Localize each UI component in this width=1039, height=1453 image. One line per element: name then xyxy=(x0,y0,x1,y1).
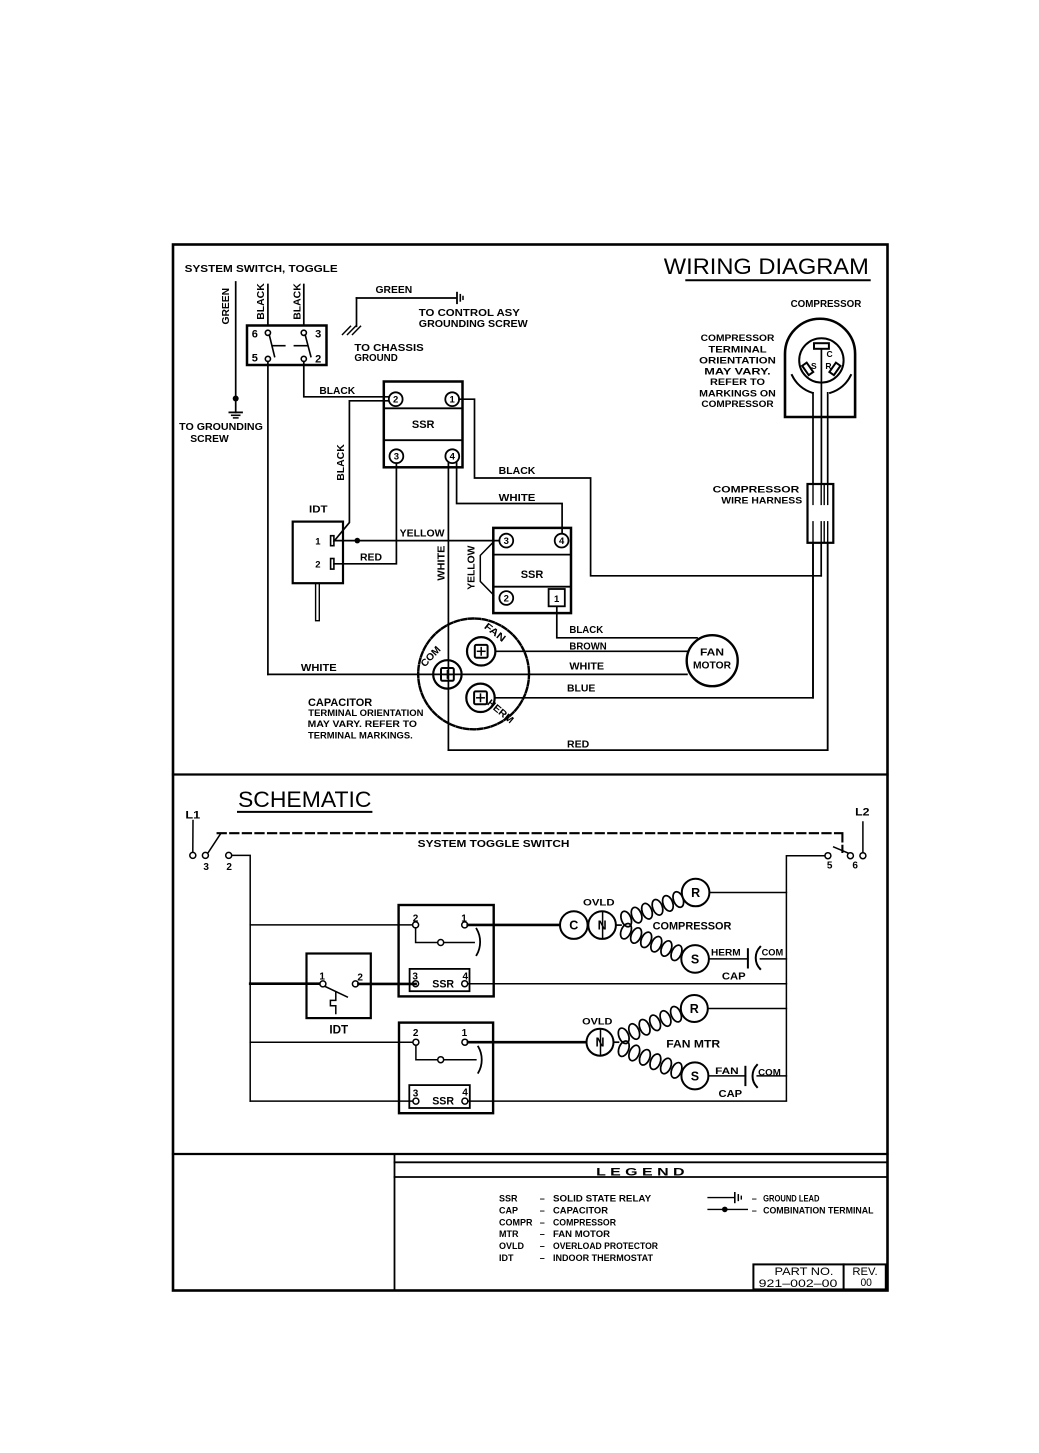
svg-text:6: 6 xyxy=(252,328,258,340)
svg-text:YELLOW: YELLOW xyxy=(400,529,445,540)
svg-text:S: S xyxy=(811,361,817,371)
svg-text:2: 2 xyxy=(357,972,363,983)
svg-text:TERMINAL ORIENTATION: TERMINAL ORIENTATION xyxy=(308,708,423,718)
svg-text:R: R xyxy=(690,1002,699,1016)
svg-text:SYSTEM SWITCH, TOGGLE: SYSTEM SWITCH, TOGGLE xyxy=(185,264,338,275)
svg-text:IDT: IDT xyxy=(329,1025,348,1037)
svg-text:COMPRESSOR: COMPRESSOR xyxy=(701,399,774,409)
svg-text:SSR: SSR xyxy=(521,569,544,581)
svg-text:1: 1 xyxy=(450,395,456,406)
svg-text:921–002–00: 921–002–00 xyxy=(759,1278,838,1290)
svg-text:CAP: CAP xyxy=(722,971,746,982)
svg-text:–: – xyxy=(540,1217,545,1227)
svg-text:COMPRESSOR: COMPRESSOR xyxy=(701,333,775,343)
svg-text:BLACK: BLACK xyxy=(319,386,355,397)
svg-text:WHITE: WHITE xyxy=(437,545,448,580)
svg-text:N: N xyxy=(598,919,607,933)
svg-text:L2: L2 xyxy=(855,807,869,819)
svg-text:GROUNDING SCREW: GROUNDING SCREW xyxy=(419,319,528,330)
svg-text:FAN: FAN xyxy=(715,1066,739,1076)
svg-text:COMBINATION TERMINAL: COMBINATION TERMINAL xyxy=(763,1205,874,1215)
svg-text:–: – xyxy=(540,1253,545,1263)
svg-text:BLACK: BLACK xyxy=(499,466,537,477)
svg-text:1: 1 xyxy=(319,971,325,982)
svg-text:1: 1 xyxy=(315,537,321,548)
svg-text:MTR: MTR xyxy=(499,1229,519,1239)
svg-text:BROWN: BROWN xyxy=(569,641,606,652)
svg-text:OVERLOAD PROTECTOR: OVERLOAD PROTECTOR xyxy=(553,1241,658,1251)
svg-text:SCHEMATIC: SCHEMATIC xyxy=(238,787,372,812)
svg-text:BLACK: BLACK xyxy=(256,282,267,319)
svg-text:BLUE: BLUE xyxy=(567,684,596,695)
svg-text:R: R xyxy=(691,886,700,900)
svg-text:2: 2 xyxy=(393,395,398,406)
svg-text:RED: RED xyxy=(360,552,382,563)
svg-text:WHITE: WHITE xyxy=(499,493,536,504)
svg-text:IDT: IDT xyxy=(309,505,328,516)
svg-text:1: 1 xyxy=(462,1028,468,1039)
svg-text:4: 4 xyxy=(450,452,456,463)
svg-text:WIRING DIAGRAM: WIRING DIAGRAM xyxy=(664,254,869,279)
svg-text:S: S xyxy=(691,1069,699,1083)
svg-text:FAN MOTOR: FAN MOTOR xyxy=(553,1229,611,1239)
svg-text:4: 4 xyxy=(559,536,565,547)
svg-text:HERM: HERM xyxy=(711,948,741,958)
svg-text:OVLD: OVLD xyxy=(499,1241,525,1251)
svg-text:CAP: CAP xyxy=(719,1089,743,1100)
svg-text:PART NO.: PART NO. xyxy=(775,1266,834,1278)
svg-text:N: N xyxy=(595,1036,604,1050)
svg-text:SSR: SSR xyxy=(499,1194,518,1204)
svg-text:CAPACITOR: CAPACITOR xyxy=(553,1205,609,1215)
svg-text:2: 2 xyxy=(315,354,321,366)
svg-text:L E G E N D: L E G E N D xyxy=(596,1167,684,1179)
svg-text:COMPR: COMPR xyxy=(499,1217,533,1227)
svg-text:GROUND: GROUND xyxy=(354,353,397,364)
svg-text:2: 2 xyxy=(413,1028,419,1039)
svg-text:3: 3 xyxy=(315,328,321,340)
svg-text:YELLOW: YELLOW xyxy=(467,545,478,590)
svg-text:–: – xyxy=(540,1194,545,1204)
svg-text:1: 1 xyxy=(554,594,560,605)
svg-text:FAN MTR: FAN MTR xyxy=(666,1039,720,1051)
svg-text:2: 2 xyxy=(504,593,509,604)
svg-text:2: 2 xyxy=(315,560,320,571)
svg-text:2: 2 xyxy=(226,862,232,873)
svg-text:MOTOR: MOTOR xyxy=(693,660,732,671)
svg-text:COM: COM xyxy=(762,948,784,958)
svg-text:COMPRESSOR: COMPRESSOR xyxy=(653,921,732,933)
svg-text:SYSTEM TOGGLE SWITCH: SYSTEM TOGGLE SWITCH xyxy=(418,839,570,850)
svg-text:TO GROUNDING: TO GROUNDING xyxy=(179,422,263,433)
svg-text:–: – xyxy=(752,1205,757,1215)
svg-text:REFER TO: REFER TO xyxy=(710,377,765,387)
svg-text:BLACK: BLACK xyxy=(293,282,304,319)
svg-text:WHITE: WHITE xyxy=(301,663,337,674)
svg-text:L1: L1 xyxy=(185,809,200,821)
svg-text:GREEN: GREEN xyxy=(221,288,232,325)
svg-text:4: 4 xyxy=(462,1088,468,1099)
svg-text:GROUND LEAD: GROUND LEAD xyxy=(763,1194,820,1204)
svg-text:5: 5 xyxy=(827,861,833,872)
svg-text:BLACK: BLACK xyxy=(569,625,604,636)
svg-text:S: S xyxy=(691,952,699,966)
svg-text:2: 2 xyxy=(413,913,419,924)
svg-text:OVLD: OVLD xyxy=(583,898,615,909)
svg-text:3: 3 xyxy=(394,452,399,463)
svg-text:–: – xyxy=(540,1229,545,1239)
svg-text:COMPRESSOR: COMPRESSOR xyxy=(553,1217,616,1227)
svg-text:BLACK: BLACK xyxy=(336,443,347,480)
svg-text:IDT: IDT xyxy=(499,1253,514,1263)
svg-text:TERMINAL MARKINGS.: TERMINAL MARKINGS. xyxy=(308,730,413,740)
svg-text:3: 3 xyxy=(203,862,209,873)
svg-text:INDOOR THERMOSTAT: INDOOR THERMOSTAT xyxy=(553,1253,653,1263)
svg-text:C: C xyxy=(569,919,578,933)
svg-text:SCREW: SCREW xyxy=(190,434,229,445)
svg-text:SOLID STATE RELAY: SOLID STATE RELAY xyxy=(553,1194,651,1204)
svg-text:5: 5 xyxy=(252,352,258,364)
svg-text:RED: RED xyxy=(567,740,589,751)
svg-text:1: 1 xyxy=(461,913,467,924)
svg-text:WHITE: WHITE xyxy=(569,661,604,672)
svg-text:FAN: FAN xyxy=(700,648,724,659)
svg-text:3: 3 xyxy=(413,1089,419,1100)
svg-text:COM: COM xyxy=(758,1067,781,1077)
svg-text:COMPRESSOR: COMPRESSOR xyxy=(791,299,862,310)
svg-text:CAP: CAP xyxy=(499,1205,518,1215)
svg-text:TO CONTROL ASY: TO CONTROL ASY xyxy=(419,308,520,319)
svg-text:MAY VARY.: MAY VARY. xyxy=(704,367,770,377)
svg-text:4: 4 xyxy=(463,972,469,983)
svg-text:GREEN: GREEN xyxy=(376,285,413,296)
svg-text:SSR: SSR xyxy=(432,1095,454,1107)
svg-text:–: – xyxy=(752,1194,757,1204)
svg-text:MARKINGS ON: MARKINGS ON xyxy=(699,389,776,399)
svg-text:R: R xyxy=(825,361,831,371)
svg-text:6: 6 xyxy=(852,861,858,872)
svg-text:COMPRESSOR: COMPRESSOR xyxy=(713,485,800,495)
svg-text:SSR: SSR xyxy=(432,979,454,991)
svg-text:WIRE HARNESS: WIRE HARNESS xyxy=(721,495,802,505)
svg-text:ORIENTATION: ORIENTATION xyxy=(699,356,776,366)
svg-text:–: – xyxy=(540,1205,545,1215)
svg-text:00: 00 xyxy=(860,1277,872,1289)
svg-text:SSR: SSR xyxy=(412,419,435,431)
svg-text:MAY VARY. REFER TO: MAY VARY. REFER TO xyxy=(308,719,417,729)
svg-text:C: C xyxy=(827,349,833,359)
svg-text:3: 3 xyxy=(504,536,509,547)
svg-text:TERMINAL: TERMINAL xyxy=(708,345,767,355)
svg-text:OVLD: OVLD xyxy=(582,1017,612,1028)
svg-text:–: – xyxy=(540,1241,545,1251)
svg-text:3: 3 xyxy=(412,972,418,983)
